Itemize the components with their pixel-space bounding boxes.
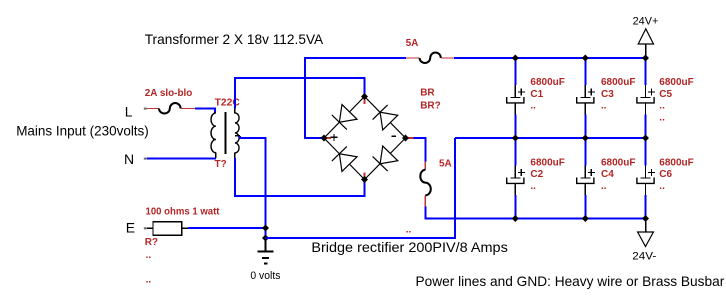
bridge pin tick bottom: [364, 173, 366, 178]
wire E pin tick: [144, 227, 147, 229]
bridge pin tick top: [364, 100, 366, 105]
fuse F1 2A slo-blo: [147, 103, 195, 113]
svg-text:..: ..: [146, 275, 152, 286]
svg-text:6800uF: 6800uF: [659, 77, 693, 88]
svg-text:..: ..: [659, 181, 665, 192]
junction dot bottom rail C2: [512, 215, 519, 222]
capacitor C1: [507, 58, 525, 138]
junction dot bridge top: [361, 93, 368, 100]
wire bridge minus to fuse F3: [414, 138, 426, 162]
svg-text:6800uF: 6800uF: [601, 157, 635, 168]
svg-text:0 volts: 0 volts: [250, 270, 280, 282]
svg-text:2A slo-blo: 2A slo-blo: [145, 88, 193, 99]
svg-text:C1: C1: [530, 89, 543, 100]
svg-text:24V-: 24V-: [632, 250, 656, 262]
svg-text:BR?: BR?: [420, 100, 441, 111]
wire bottom rail: [515, 218, 645, 220]
svg-text:N: N: [124, 151, 134, 167]
wire L pin tick: [144, 108, 147, 110]
junction dot mid rail C1: [512, 135, 519, 142]
junction dot ground column lower: [262, 235, 269, 242]
wire L fuse to transformer: [195, 109, 215, 114]
connector 24V-: [638, 219, 654, 247]
fuse F2 5A top rail: [406, 53, 454, 63]
svg-text:C3: C3: [601, 89, 614, 100]
diode D4 bottom-right: [373, 146, 398, 171]
bridge rectifier BR?: [324, 97, 406, 180]
svg-text:C6: C6: [659, 169, 672, 180]
diode D3 top-right: [373, 105, 398, 130]
wire secondary top to bridge top: [235, 78, 365, 109]
junction dot bridge right: [402, 135, 409, 142]
svg-text:5A: 5A: [406, 38, 419, 49]
ground symbol 0 volts: [257, 240, 273, 263]
wire fuse F3 to bottom rail: [425, 207, 515, 219]
transformer T?: [211, 108, 240, 159]
fuse F3 5A negative rail: [420, 162, 431, 207]
svg-text:E: E: [126, 219, 135, 235]
wire resistor to ground column: [188, 227, 266, 229]
svg-text:C2: C2: [530, 169, 543, 180]
bridge pin tick left: [327, 137, 331, 139]
svg-text:100 ohms 1 watt: 100 ohms 1 watt: [146, 207, 221, 218]
wire mid rail: [455, 137, 646, 139]
svg-text:C5: C5: [659, 89, 672, 100]
capacitor C5: [637, 58, 655, 138]
junction dot mid rail C3: [582, 135, 589, 142]
wire top rail: [454, 57, 646, 59]
junction dot bottom rail C6: [642, 215, 649, 222]
svg-text:5A: 5A: [439, 159, 452, 170]
svg-text:Mains Input (230volts): Mains Input (230volts): [16, 123, 149, 139]
junction dot mid rail C5: [642, 135, 649, 142]
svg-text:6800uF: 6800uF: [601, 77, 635, 88]
svg-text:6800uF: 6800uF: [659, 157, 693, 168]
capacitor C4: [577, 138, 595, 219]
svg-text:..: ..: [659, 113, 665, 124]
capacitor C3: [577, 58, 595, 138]
junction dot top rail C1: [512, 55, 519, 62]
bridge BR? labels: [420, 88, 441, 112]
junction dot top rail C3: [582, 55, 589, 62]
svg-text:Bridge rectifier 200PIV/8 Amps: Bridge rectifier 200PIV/8 Amps: [311, 239, 507, 255]
wire N mains to transformer: [147, 158, 216, 160]
svg-text:Power lines and GND: Heavy wir: Power lines and GND: Heavy wire or Brass…: [416, 273, 725, 289]
svg-text:..: ..: [601, 181, 607, 192]
svg-text:..: ..: [530, 101, 536, 112]
svg-text:..: ..: [530, 181, 536, 192]
svg-text:BR: BR: [420, 88, 435, 99]
svg-text:24V+: 24V+: [633, 16, 659, 28]
junction dot bridge left: [321, 135, 328, 142]
bridge plus sign: [331, 134, 338, 141]
junction dot ground column upper: [262, 225, 269, 232]
connector 24V+: [638, 29, 653, 58]
svg-text:T?: T?: [215, 159, 227, 170]
wire N pin tick: [144, 158, 147, 160]
capacitor C6: [637, 138, 655, 219]
svg-text:..: ..: [146, 250, 152, 261]
svg-text:L: L: [125, 103, 133, 119]
svg-text:R?: R?: [145, 237, 158, 248]
bridge pin tick right: [408, 137, 414, 139]
resistor R?: [147, 222, 188, 236]
bridge minus sign: [392, 135, 397, 137]
diode D2 bottom-left: [332, 146, 357, 171]
svg-text:6800uF: 6800uF: [530, 157, 564, 168]
junction dot top rail C5: [642, 55, 649, 62]
wire ground column between dots: [265, 228, 267, 241]
svg-text:6800uF: 6800uF: [530, 77, 564, 88]
wire ground to mid rail: [266, 138, 456, 238]
diode D1 top-left: [332, 105, 357, 130]
svg-text:T22C: T22C: [215, 97, 240, 108]
svg-text:..: ..: [601, 101, 607, 112]
junction dot bridge bottom: [361, 176, 368, 183]
svg-text:C4: C4: [601, 169, 614, 180]
wire secondary bottom to bridge bottom: [235, 158, 365, 196]
capacitor C2: [507, 138, 525, 219]
junction dot bottom rail C4: [582, 215, 589, 222]
svg-text:Transformer 2 X 18v 112.5VA: Transformer 2 X 18v 112.5VA: [145, 31, 324, 47]
svg-text:..: ..: [659, 101, 665, 112]
wire bridge plus to top rail riser: [305, 58, 406, 138]
wire center tap to ground column: [240, 136, 265, 228]
svg-text:..: ..: [406, 225, 412, 236]
